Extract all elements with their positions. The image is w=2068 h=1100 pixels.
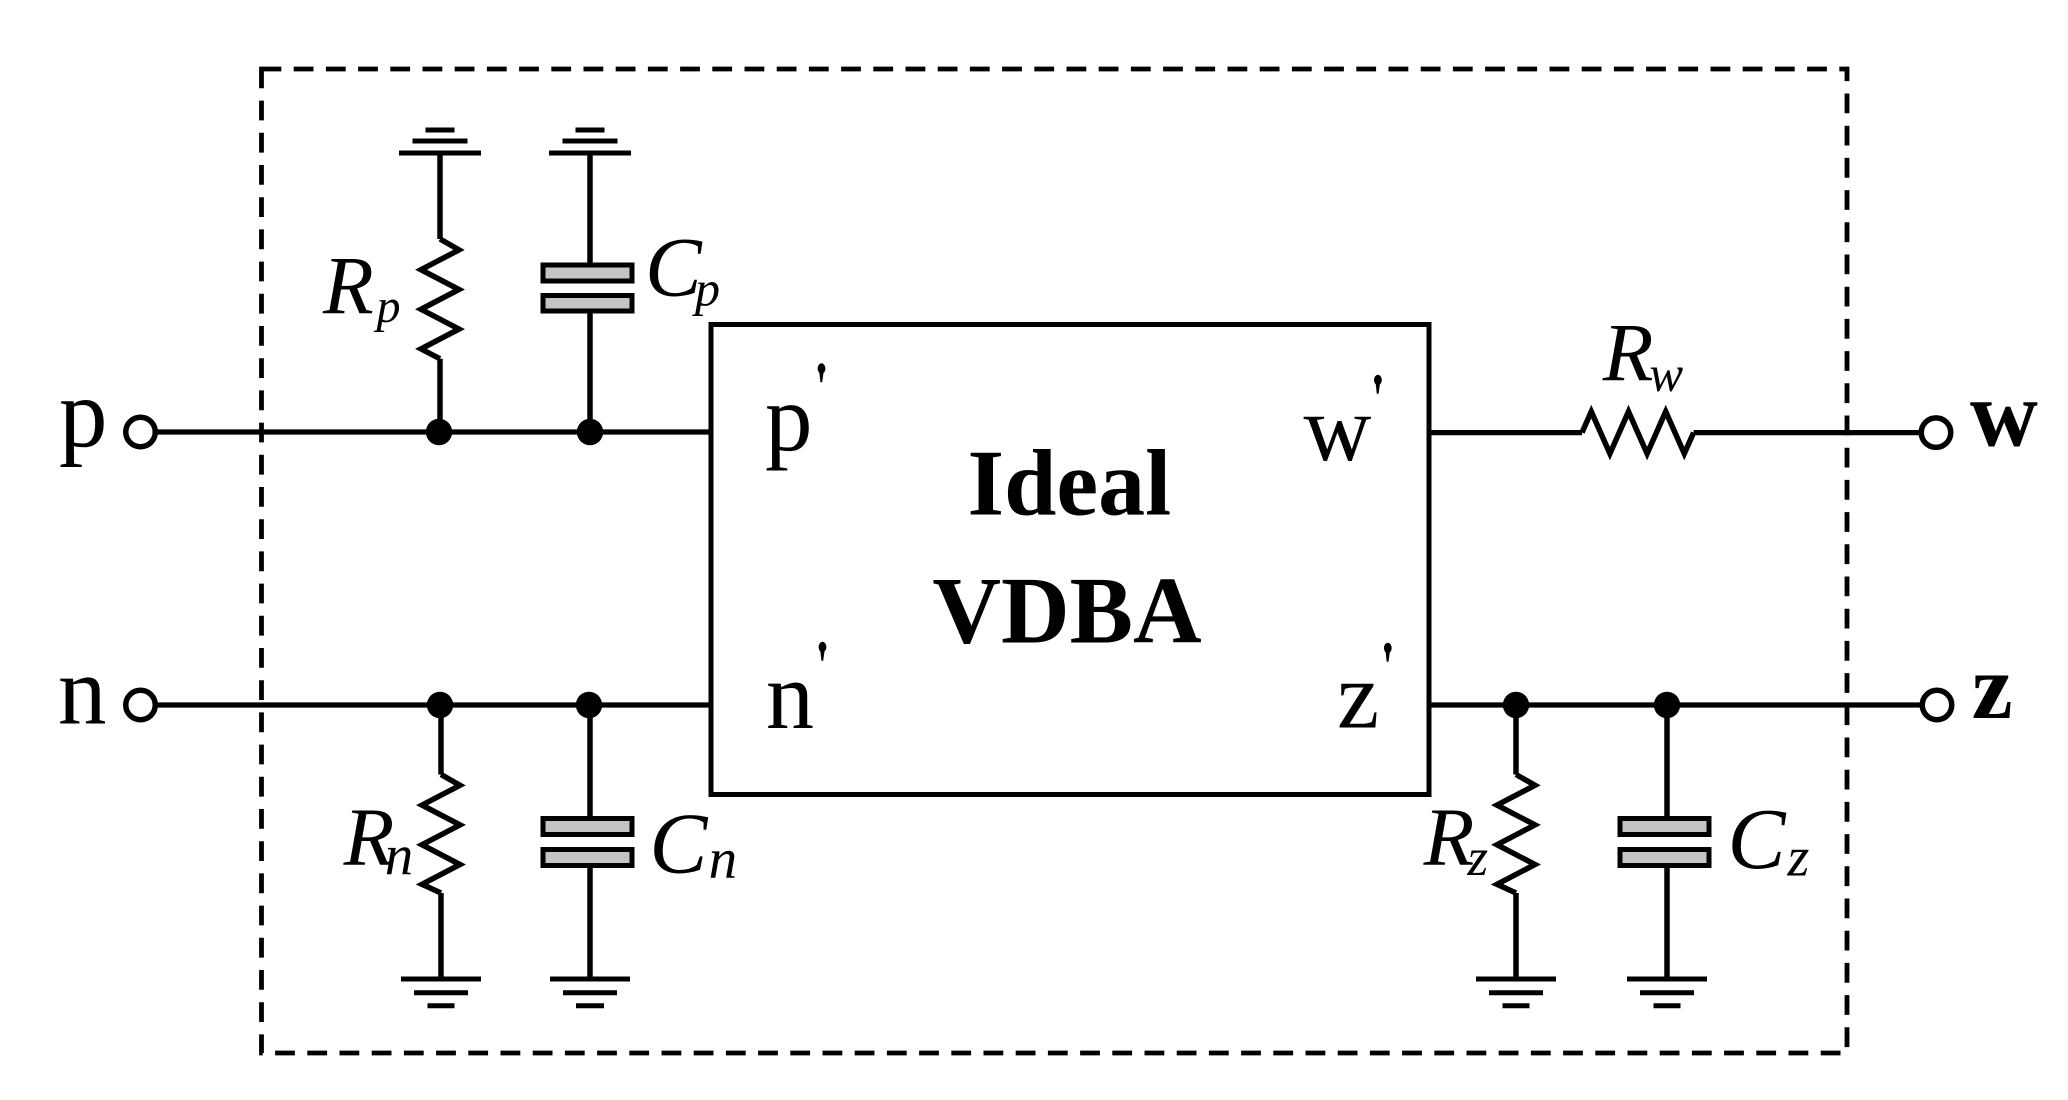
junction dot n-Cn: [576, 692, 602, 718]
junction dot p-Rp: [426, 419, 452, 445]
resistor Rw: [1582, 412, 1694, 454]
capacitor Cz: [1620, 705, 1709, 979]
pin w' label: [1304, 375, 1382, 481]
terminal z: [1922, 690, 1952, 720]
junction dot z-Cz: [1654, 692, 1680, 718]
capacitor Cp: [543, 153, 632, 432]
svg-text:C: C: [1728, 790, 1787, 887]
svg-text:z: z: [1972, 636, 2013, 738]
svg-text:R: R: [322, 240, 374, 332]
capacitor Cn: [543, 705, 632, 979]
label Cp: [645, 221, 720, 317]
resistor Rp: [421, 153, 459, 432]
wire w' to Rw: [1429, 430, 1582, 435]
svg-text:n: n: [385, 825, 414, 888]
svg-text:z: z: [1467, 829, 1489, 887]
pin n' label: [766, 642, 826, 749]
svg-text:VDBA: VDBA: [932, 557, 1201, 663]
svg-text:n: n: [58, 638, 107, 745]
wire n to n': [155, 702, 711, 707]
svg-text:p: p: [692, 261, 720, 317]
terminal w: [1921, 418, 1951, 448]
ground (top, for Rp): [399, 130, 481, 153]
label Rn: [343, 791, 414, 888]
svg-text:z: z: [1787, 827, 1810, 889]
resistor Rz: [1497, 705, 1535, 979]
ground (bottom, for Cn): [550, 979, 630, 1006]
VDBA block U1: [711, 325, 1429, 795]
resistor Rn: [422, 705, 460, 979]
junction dot z-Rz: [1503, 692, 1529, 718]
ground (bottom, for Rn): [401, 979, 481, 1006]
junction dot n-Rn: [427, 692, 453, 718]
wire z' to z: [1429, 702, 1921, 707]
svg-text:p: p: [765, 365, 813, 471]
label Rz: [1423, 791, 1489, 887]
svg-text:w: w: [1304, 377, 1372, 481]
svg-text:w: w: [1970, 363, 2038, 467]
svg-text:w: w: [1649, 346, 1683, 402]
label Rw: [1602, 307, 1684, 403]
svg-text:Ideal: Ideal: [968, 431, 1172, 535]
ground (top, for Cp): [549, 130, 631, 153]
svg-text:n: n: [709, 828, 738, 891]
wire Rw to w: [1694, 430, 1920, 435]
ground (bottom, for Cz): [1627, 979, 1707, 1006]
svg-text:p: p: [59, 360, 108, 467]
terminal p: [126, 417, 156, 447]
svg-text:p: p: [374, 280, 401, 333]
ground (bottom, for Rz): [1476, 979, 1556, 1006]
dashed boundary frame: [262, 69, 1848, 1053]
terminal n: [126, 690, 156, 720]
label Cz: [1728, 790, 1810, 889]
junction dot p-Cp: [577, 419, 603, 445]
pin p' label: [765, 363, 825, 471]
svg-text:R: R: [1602, 307, 1654, 399]
label Cn: [649, 795, 737, 892]
svg-text:C: C: [649, 795, 708, 892]
wire p to p': [155, 429, 711, 434]
svg-text:n: n: [766, 642, 814, 749]
label Rp: [322, 240, 401, 334]
pin z' label: [1337, 643, 1392, 749]
svg-text:z: z: [1337, 643, 1379, 749]
